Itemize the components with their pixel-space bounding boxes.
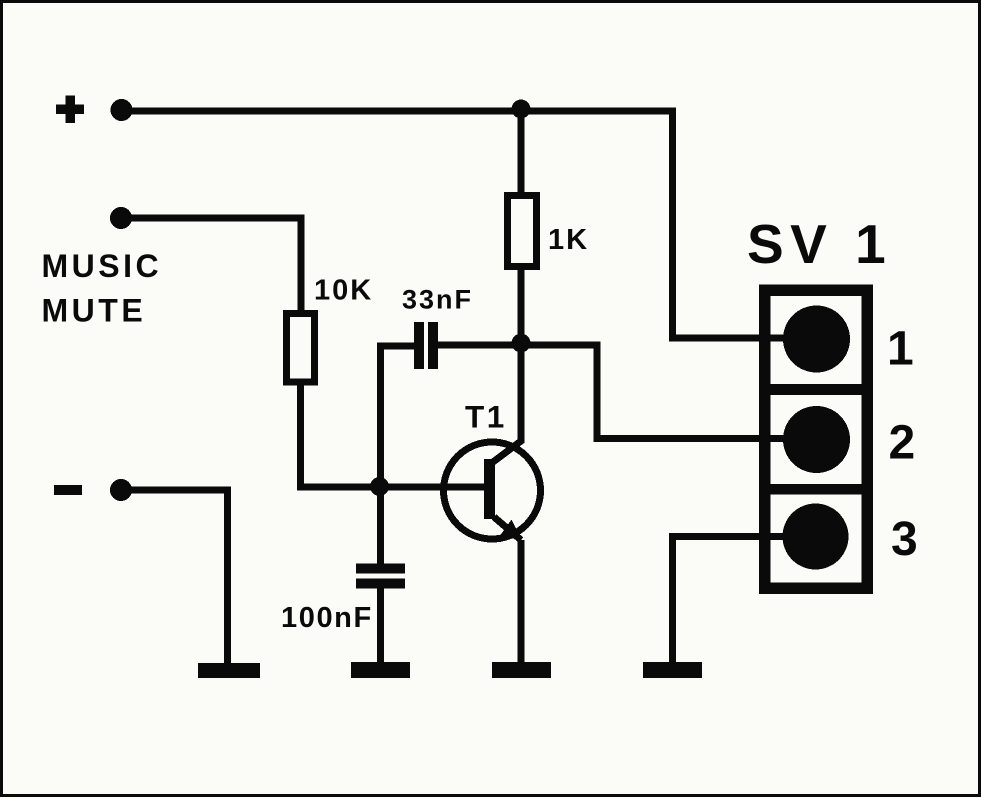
wire base node to T1 base xyxy=(380,484,489,491)
capacitor 33nF xyxy=(414,322,438,369)
wire 1K bottom lead xyxy=(518,270,525,342)
net label - (negative supply) xyxy=(54,485,82,495)
svg-text:100nF: 100nF xyxy=(281,602,373,634)
junction dot collector node xyxy=(512,334,531,353)
resistor 10K xyxy=(287,314,315,383)
ground (SV1 pin 3) xyxy=(643,662,702,678)
svg-text:SV 1: SV 1 xyxy=(747,213,892,275)
wire collector node to SV1 pin 2 xyxy=(521,345,786,439)
wire 10K bottom to base node xyxy=(301,382,380,487)
svg-text:1K: 1K xyxy=(548,224,589,256)
SV1 pad 1 xyxy=(783,306,850,373)
wire T1 emitter to ground xyxy=(518,540,525,663)
wire SV1 pin 3 to ground xyxy=(673,537,787,663)
wire collector node to 33nF right plate xyxy=(438,342,521,349)
wire 1K top lead xyxy=(518,111,525,195)
capacitor 100nF xyxy=(356,564,405,589)
connector SV1 xyxy=(765,290,868,588)
ground (100nF) xyxy=(351,662,410,678)
terminal dot + xyxy=(111,99,133,121)
ground (- terminal) xyxy=(198,663,260,678)
svg-text:MUSIC: MUSIC xyxy=(42,248,163,284)
terminal dot MUSIC MUTE xyxy=(110,207,132,229)
transistor T1 xyxy=(444,442,541,541)
wire 33nF left plate to base node xyxy=(381,346,415,487)
svg-text:MUTE: MUTE xyxy=(42,293,147,329)
wire 100nF bottom to ground xyxy=(377,588,384,663)
svg-text:1: 1 xyxy=(887,323,914,376)
wire - terminal to ground xyxy=(121,490,228,664)
junction dot at 1K top xyxy=(512,100,531,119)
wire + rail horizontal xyxy=(121,108,673,115)
SV1 pad 2 xyxy=(783,406,850,473)
wire collector node down to T1 collector xyxy=(493,343,521,462)
svg-text:T1: T1 xyxy=(465,399,507,435)
ground (T1 emitter) xyxy=(492,662,551,678)
svg-text:2: 2 xyxy=(889,417,916,470)
SV1 pad 3 xyxy=(783,504,849,570)
wire base node to 100nF top xyxy=(377,487,384,566)
resistor 1K xyxy=(508,196,537,267)
junction dot base node xyxy=(370,477,389,496)
wire + rail to SV1 pin 1 xyxy=(673,108,787,339)
wire MUTE terminal to 10K top xyxy=(121,218,301,313)
terminal dot - xyxy=(110,479,132,501)
net label + (positive supply) xyxy=(56,96,84,124)
svg-text:3: 3 xyxy=(891,513,918,566)
svg-text:33nF: 33nF xyxy=(402,285,473,315)
svg-text:10K: 10K xyxy=(314,275,373,307)
